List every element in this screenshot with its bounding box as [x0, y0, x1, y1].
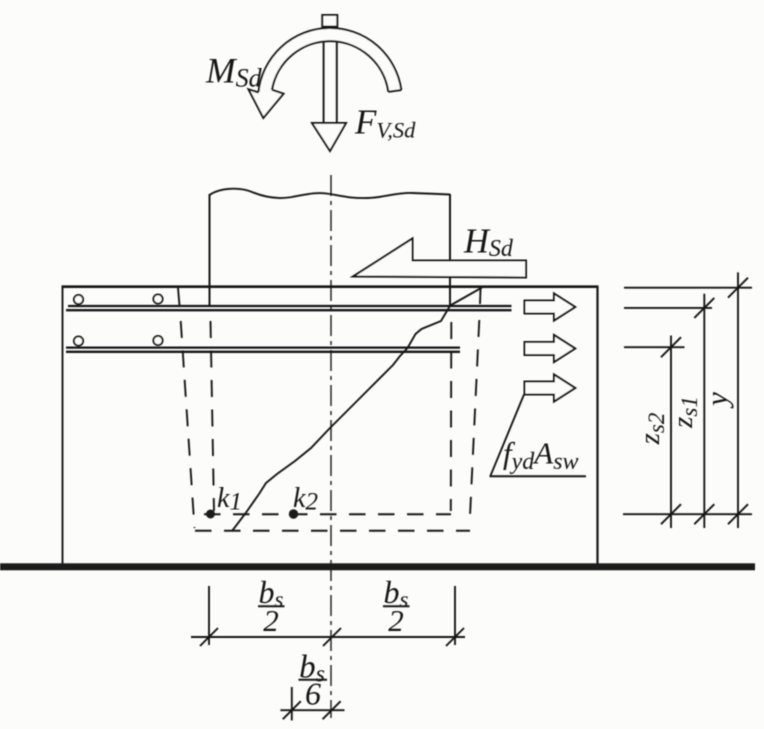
dim line zs1 — [703, 294, 705, 528]
stirrup force arrow 2 — [525, 335, 576, 362]
dim ext line zs2 level — [624, 346, 685, 348]
rebar bar2 bottom line — [66, 351, 460, 353]
column right edge — [449, 194, 451, 306]
label bs/2 left fraction bar — [258, 605, 285, 607]
dim ext line bottom (k level) — [623, 513, 752, 515]
svg-text:MSd: MSd — [205, 51, 263, 93]
rebar bar2 anchor circle a — [74, 336, 83, 345]
tick y bottom — [728, 504, 748, 524]
pocket right outer wall dashed — [470, 320, 479, 516]
svg-text:2: 2 — [388, 603, 404, 638]
rebar bar1 anchor circle b — [153, 294, 162, 303]
crack line — [232, 288, 482, 532]
pocket left inner wall dashed — [211, 321, 215, 511]
pocket right inner wall dashed — [450, 322, 453, 511]
svg-text:6: 6 — [305, 676, 321, 712]
column top break (wavy) line — [210, 189, 451, 198]
tick zs2 bottom — [661, 504, 681, 524]
dim line zs2 — [670, 336, 672, 529]
dim line bs — [191, 636, 465, 638]
svg-text:zs2: zs2 — [634, 413, 669, 446]
witness line bs left — [208, 586, 210, 645]
rebar bar2 top line — [66, 346, 460, 348]
svg-text:k2: k2 — [293, 483, 318, 516]
f_yd A_sw underline — [490, 475, 587, 477]
foundation top edge — [62, 285, 599, 288]
svg-text:k1: k1 — [217, 483, 242, 516]
svg-text:y: y — [699, 392, 734, 409]
foundation right edge — [596, 286, 598, 566]
pocket inner bottom dashed — [204, 513, 451, 515]
tick bs6 left — [283, 701, 301, 719]
tick bs6 right — [323, 701, 341, 719]
pocket left outer wall dashed — [181, 321, 195, 528]
dim ext line zs1 level — [624, 307, 712, 309]
tick zs2 top — [661, 337, 681, 357]
node k1 dot — [206, 510, 215, 519]
tick bs centre — [323, 628, 341, 646]
svg-text:FV,Sd: FV,Sd — [354, 103, 416, 143]
F_V,Sd arrowhead — [312, 123, 346, 151]
tick bs left — [200, 628, 218, 646]
tick y top — [728, 278, 748, 298]
rebar bar2 anchor circle b — [153, 336, 162, 345]
label bs/6 fraction bar — [299, 679, 328, 681]
ground line — [0, 563, 755, 570]
f_yd A_sw leader line — [491, 395, 525, 476]
tick bs right — [446, 628, 464, 646]
svg-text:HSd: HSd — [463, 223, 514, 263]
witness line bs right — [454, 586, 456, 645]
F_V,Sd vertical force arrow square anchor — [322, 15, 337, 27]
F_V,Sd arrow shaft — [323, 26, 325, 123]
centerline — [330, 175, 332, 718]
svg-text:fydAsw: fydAsw — [503, 436, 579, 476]
rebar bar1 anchor circle a — [74, 295, 83, 304]
node k2 dot — [289, 509, 298, 518]
rebar bar1 bottom line — [66, 309, 512, 311]
svg-text:zs1: zs1 — [667, 396, 702, 429]
column left edge — [209, 194, 211, 306]
pocket outer bottom dashed — [195, 530, 470, 532]
H_Sd horizontal force arrow — [353, 239, 526, 278]
dim line y — [737, 272, 739, 528]
dim ext line top (y level) — [624, 287, 752, 289]
foundation left edge — [62, 286, 64, 566]
pocket left outer wall solid top segment — [178, 288, 180, 306]
moment arc right end cut — [388, 90, 401, 92]
stirrup force arrow 3 — [525, 375, 576, 402]
pocket right outer wall solid top segment — [479, 289, 482, 304]
stirrup force arrow 1 — [525, 294, 576, 321]
moment arrow M_Sd arc band — [258, 28, 401, 94]
label bs/2 right fraction bar — [383, 605, 410, 607]
tick zs1 top — [694, 298, 714, 318]
dim line bs6 — [280, 709, 344, 711]
rebar bar1 top line — [68, 305, 512, 307]
witness line bs6 left — [291, 687, 293, 721]
tick zs1 bottom — [694, 504, 714, 524]
svg-text:2: 2 — [263, 603, 279, 638]
moment arrowhead — [249, 89, 284, 118]
